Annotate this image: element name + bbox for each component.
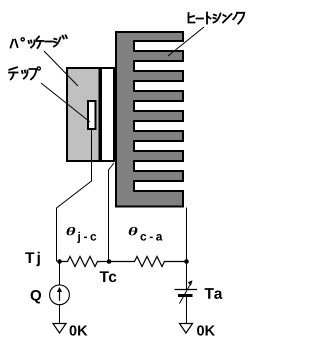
label j-c [77, 232, 96, 243]
label 0K [70, 325, 88, 335]
label Tj [25, 252, 40, 266]
variable arrow across source [180, 283, 192, 304]
heatsink (comb shape) [116, 32, 183, 207]
current source Q (circle with up arrow) [50, 285, 70, 305]
wire Ta node to temperature source [186, 262, 188, 290]
label "package" (katakana) [11, 35, 67, 48]
label c-a [140, 234, 162, 241]
package white flange strip [102, 69, 113, 160]
node Ta [184, 259, 189, 264]
resistor theta c-a [109, 257, 187, 267]
node Tj [57, 259, 62, 264]
variable temperature source (battery plates) [175, 289, 198, 291]
label theta j-c (theta glyph) [67, 227, 76, 235]
ground (left) [53, 324, 66, 334]
label theta c-a (theta glyph) [129, 227, 138, 235]
wire source to ground [186, 296, 188, 324]
label Tc [100, 271, 117, 282]
leader line to heatsink label [168, 27, 204, 56]
resistor theta j-c [60, 257, 110, 267]
leader line to chip label [41, 83, 90, 122]
label Q [31, 290, 41, 303]
wire from heatsink down to Ta node [186, 208, 188, 262]
label "chip" (katakana) [9, 67, 40, 79]
wire from case/heatsink contact down to Tc node [109, 163, 115, 262]
chip (white rect inside package) [88, 101, 96, 129]
label Ta [205, 288, 223, 299]
ground (right) [180, 324, 193, 334]
node Tc [107, 259, 112, 264]
wire current source to ground [59, 305, 61, 324]
label "heatsink" (katakana) [189, 13, 245, 24]
leader line to package label [44, 51, 78, 86]
package body (case, light gray) [67, 68, 114, 161]
package divider line [99, 68, 103, 161]
wire from chip down to Tj node [57, 130, 92, 262]
label 0K [197, 325, 215, 335]
wire Tj node to current source [59, 262, 61, 286]
